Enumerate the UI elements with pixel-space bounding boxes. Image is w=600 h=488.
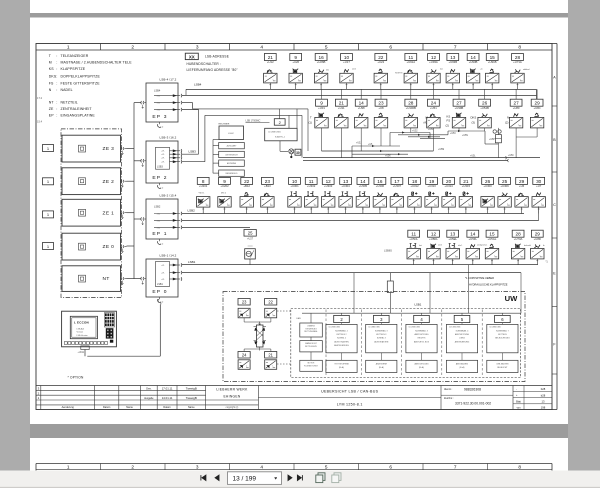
svg-text:xxxxx: xxxxx [248,245,253,247]
svg-text:21: 21 [268,353,273,358]
UW module 5 bottom box [446,360,477,372]
wire drop rowB [515,128,517,137]
wire drop 10 [294,207,296,213]
wire drop 11 [310,207,312,213]
svg-text:LSB4: LSB4 [194,83,202,87]
unit box ZE 0 [62,233,121,260]
lsb node symbol 15 [486,73,499,83]
svg-text:+U91B: +U91B [488,60,497,64]
node box 10 @x294 [289,177,301,184]
wire bus to EP3 [134,102,141,104]
next ruler divider 6 [422,464,424,470]
svg-text:2: 2 [131,45,134,51]
node box 11 @x311 [305,177,317,184]
svg-text:L: L [416,255,417,257]
wire EP3 pin2 jog [182,102,193,104]
svg-text:3: 3 [196,45,199,51]
svg-text:1: 1 [67,465,70,470]
ruler divider 5 [358,44,360,51]
wire ZE to bus [127,212,135,214]
svg-text:+U300: +U300 [483,184,492,188]
wire feed bus upper [193,108,308,110]
lsb node symbol 24 [427,117,440,128]
svg-text:L: L [475,255,476,257]
wire ZE to bus [127,148,135,150]
svg-text:L: L [344,124,345,126]
svg-text:+U93B: +U93B [448,60,457,64]
svg-text:wind: wind [352,69,356,71]
svg-text:ABSTUETZUNG: ABSTUETZUNG [414,333,429,336]
lsb node symbol 10 [340,73,353,83]
wire theta drop [249,259,251,265]
svg-text:+U5N: +U5N [462,135,468,137]
next ruler divider 4 [293,464,295,470]
node box 29 @x537 [531,99,543,106]
UW module 4 number box [414,315,430,322]
svg-text:TweeigB: TweeigB [186,396,197,400]
UW module 3 bottom box [366,360,397,372]
wire feed 24 [432,89,434,99]
UW outer dash-dot border [223,292,525,382]
svg-text:MOTOR: MOTOR [308,363,315,365]
svg-text:MASTNASE / 2.HUBENDSCHALTER TE: MASTNASE / 2.HUBENDSCHALTER TELE [61,61,133,65]
svg-text:UEBERSICHT LSB / CAN-BUS: UEBERSICHT LSB / CAN-BUS [321,389,379,393]
svg-text:4: 4 [260,45,263,51]
svg-text:C: C [553,203,556,207]
wire LSB4 bus right drop [536,89,538,99]
ruler divider 7 [487,44,489,51]
svg-text:+U303: +U303 [324,184,333,188]
svg-text:+U22: +U22 [377,60,384,64]
UW lsb symbol 24 [238,360,250,370]
svg-text:FLURMOTORST: FLURMOTORST [304,366,319,368]
svg-text:LSB-ADRESSE: LSB-ADRESSE [205,55,229,59]
wire drop 14 [362,207,364,213]
svg-text:CAN: CAN [296,317,301,320]
wire EP3-EP2 loop inner [182,161,205,163]
lsb node symbol 12 [322,197,335,208]
svg-text:NT: NT [103,276,110,282]
svg-text:LINKS: LINKS [459,338,465,340]
svg-text:LSB65: LSB65 [384,248,392,252]
svg-text:RETTUNGSPL: RETTUNGSPL [305,346,317,348]
UW node boxes 24 21 [238,352,250,359]
svg-text:C0 LSB6 LSB5: C0 LSB6 LSB5 [409,326,420,328]
node box 16 @x321 [315,54,327,61]
EP0 bottom connector [157,299,160,302]
wire drop 13 [452,83,454,90]
svg-text:+U312: +U312 [410,184,419,188]
UW module 2 detail box [326,324,357,352]
svg-text::: : [56,61,57,65]
svg-text:LSB-Adr: LSB-Adr [77,327,85,330]
ruler divider 1 [100,44,102,51]
wire EP3-EP2 loop outer [182,153,199,155]
svg-text:+U315: +U315 [462,184,471,188]
wire drop 28 [517,83,519,90]
wire drop 26 [487,207,489,213]
top ruler line [36,49,552,51]
lsb node symbol 13 [339,197,352,208]
svg-text:L: L [298,79,299,81]
svg-text:30: 30 [296,151,300,155]
svg-text:(3): (3) [472,121,475,125]
node box 15 @x492 [486,54,498,61]
svg-text:+U11: +U11 [338,106,345,110]
svg-text:17.01.11: 17.01.11 [162,387,173,391]
wire drop 12 [327,207,329,213]
wire drop 16 [320,83,322,90]
svg-text:EP: EP [49,114,54,118]
wire feed 26 [484,89,486,99]
UW module 6 number box [495,315,511,322]
svg-text:LEITERZEICH: LEITERZEICH [225,155,238,157]
node box 9 @x224 [219,177,231,184]
svg-text::: : [56,54,57,58]
svg-text:NT: NT [49,100,55,104]
lsb node symbol 26 [481,197,494,208]
svg-text:ZE 0: ZE 0 [103,244,115,250]
node box 28 @x410 [405,99,417,106]
wire feed 28 [410,89,412,99]
UW feed component [387,281,393,293]
node box 14 @x362 [357,177,369,184]
svg-text:L: L [324,124,325,126]
node box 29 @x537 [531,230,543,237]
svg-text:+U5L: +U5L [470,155,476,157]
svg-text:KLEMMKAS. 3: KLEMMKAS. 3 [375,330,388,333]
svg-text:+U8D: +U8D [534,237,541,241]
svg-text:+U6: +U6 [519,184,525,188]
svg-text:+U306: +U306 [376,184,385,188]
svg-text:DOPPELKLAPPSPITZE: DOPPELKLAPPSPITZE [61,75,101,79]
svg-text:C0 LSB6 LSB5: C0 LSB6 LSB5 [329,326,340,328]
lsb node symbol 21 [264,73,277,83]
svg-text:tb: tb [543,244,545,247]
svg-text:+U314: +U314 [444,184,453,188]
UW dashed separators [325,310,327,377]
toolbar next button [288,475,292,480]
svg-text:+U5DL: +U5DL [429,237,438,241]
svg-text:+U100B: +U100B [406,106,416,110]
svg-text:7: 7 [454,45,457,51]
svg-text:EP 1: EP 1 [152,231,167,237]
row tick [552,237,557,239]
svg-text:N: N [507,116,509,120]
svg-text:LSB2: LSB2 [154,205,161,209]
theta symbol box [245,249,256,259]
svg-text:L: L [468,204,469,206]
node box 25 [244,230,256,237]
connector at ZE 3 right [120,147,123,150]
svg-text:ZE 1: ZE 1 [103,210,115,216]
row tick [552,171,557,173]
wire drop rowB [458,128,460,131]
wire bus LSB2 line3 [182,226,251,228]
svg-text:+U26B: +U26B [317,60,326,64]
monitor sub box [81,346,89,350]
svg-text:L: L [520,79,521,81]
wire drop rowB [360,128,362,151]
svg-text:T: T [310,116,312,120]
svg-text:LSB1: LSB1 [157,283,164,286]
lsb node symbol 11 [407,248,420,259]
svg-text:LYM 1250-8.1: LYM 1250-8.1 [337,402,363,406]
ground below EP 3 [159,122,161,124]
svg-text:+U54B: +U54B [480,106,489,110]
svg-text:Aenderung: Aenderung [62,406,75,409]
lsb node symbol 29 [530,117,543,128]
svg-text:FESTE GITTERSPITZE: FESTE GITTERSPITZE [61,81,101,85]
svg-text:(1): (1) [309,121,312,125]
svg-text:(2): (2) [446,124,449,128]
stacked sub boxes [219,143,245,149]
svg-text:L: L [490,204,491,206]
svg-text:RECHNER: RECHNER [219,123,230,125]
svg-text:wind: wind [438,245,442,247]
svg-text:+U201: +U201 [199,184,208,188]
wire drop 22 [246,207,248,213]
wire drop 11 [413,259,415,265]
svg-text:L: L [249,204,250,206]
svg-text:8: 8 [518,465,521,470]
node box 27 @x516 [510,99,522,106]
UW module 5 detail box [446,324,477,352]
wire bus to EP2 [134,160,141,162]
svg-text:XX: XX [189,54,195,59]
toolbar page-copy icon 2 [334,473,341,481]
svg-text:+U309: +U309 [500,184,509,188]
node box 12 @x433 [428,230,440,237]
svg-text:windgeschw.: windgeschw. [477,245,488,247]
svg-text:*1 KOPFSPITZE UEBER: *1 KOPFSPITZE UEBER [465,276,494,280]
node box 20 @x448 [443,177,455,184]
main page [30,18,568,425]
svg-text:UW: UW [505,294,518,303]
svg-text:L: L [273,79,274,81]
module EP 0 [146,259,178,297]
connector at ZE 0 right [120,245,123,248]
svg-text:24: 24 [242,353,247,358]
wire bus LSB2 line2 [182,219,539,221]
lsb node symbol 25 [498,197,511,208]
UW module 3 number box [374,315,390,322]
wire EP0 to monitor [159,304,161,356]
svg-text::: : [56,107,57,111]
svg-text:L: L [348,204,349,206]
unit box NT [62,266,121,292]
svg-text:1: 1 [67,45,70,51]
svg-text:Blatt: Blatt [516,400,521,403]
svg-text:L: L [436,255,437,257]
lsb node symbol 28 [511,248,524,259]
svg-text:L: L [365,204,366,206]
wire drop 14 [472,259,474,265]
svg-text:Version: Version [77,332,84,334]
svg-text:LSB-3 /16.2: LSB-3 /16.2 [160,135,177,139]
page gap divider bottom [30,424,568,438]
svg-text:b28: b28 [541,387,546,391]
svg-text:L: L [540,255,541,257]
UW node boxes 23 22 [238,299,250,306]
row tick [552,105,557,107]
svg-text:ZE 3: ZE 3 [103,146,115,152]
UW feed verticals [353,273,355,314]
ref box 1 (ZE 0) [43,243,54,250]
svg-text:3371-922.30.00.001-002: 3371-922.30.00.001-002 [455,401,491,405]
toolbar first-page button [201,475,206,480]
svg-text:L: L [495,255,496,257]
lsb node symbol 11 [305,197,318,208]
svg-text:+U99B: +U99B [455,106,464,110]
lsb node symbol 17 [390,197,403,208]
UW module 4 detail box [406,324,437,352]
frame right letter margin line [556,44,558,410]
node box 10 @x346 [341,54,353,61]
wire feed 29 [536,89,538,99]
svg-text:L: L [521,255,522,257]
svg-text:Ges.: Ges. [146,387,152,391]
UW module 5 number box [454,315,470,322]
title block table [36,385,552,387]
interface wide box [265,128,297,141]
node box 24 @x433 [428,99,440,106]
lsb node symbol 23 [374,117,387,128]
svg-text:L: L [383,79,384,81]
ref box 1 (ZE 3) [43,145,54,152]
svg-text:+U52: +U52 [412,131,418,133]
svg-text:+U8C: +U8C [533,106,540,110]
svg-text:C0 LSB6 LSB5: C0 LSB6 LSB5 [368,326,379,328]
node box 21 @x341 [335,99,347,106]
svg-text:L: L [246,314,247,316]
svg-text:+U202: +U202 [220,184,229,188]
UW lsb symbol 21 [265,360,277,370]
ground below EP 2 [159,183,161,185]
node box 16 @x379 [374,177,386,184]
svg-text:+U93A: +U93A [429,60,438,64]
svg-text:TELEANZEIGER: TELEANZEIGER [61,54,89,58]
svg-text:4: 4 [260,465,263,470]
cylinder link wires [243,318,245,322]
svg-text:L: L [413,124,414,126]
wire drop 14 [472,83,474,90]
svg-text:+U5EL: +U5EL [448,237,457,241]
svg-text:EP 0: EP 0 [152,289,167,295]
svg-text:+U50: +U50 [508,155,514,157]
wire drop 28 [517,259,519,265]
UW module 3 detail box [366,324,397,352]
svg-text:UEB.KASTEN: UEB.KASTEN [496,363,509,366]
svg-text:tele 1: tele 1 [458,244,462,247]
connector at NT right [120,277,123,280]
wire drop rowB [432,128,434,151]
node box 26 @x487 [482,177,494,184]
svg-text:+U91A: +U91A [406,60,415,64]
svg-text:+U302: +U302 [307,184,316,188]
computer main box [219,126,244,140]
wire drop 13 [452,259,454,265]
svg-text::: : [56,114,57,118]
wire stacked connector [212,140,214,174]
row tick [552,373,557,375]
svg-text:L: L [399,204,400,206]
svg-text:(B+A): (B+A) [460,366,465,369]
svg-text:+U26: +U26 [292,60,299,64]
ref box 1 (ZE 2) [43,178,54,185]
svg-text:STEUERUNG: STEUERUNG [305,328,317,330]
wire feed 27 [515,89,517,99]
wire bus LSB2 line1 [182,213,525,215]
UW module 6 detail box [487,324,518,352]
svg-text:+U5P: +U5P [489,139,495,141]
svg-text:23: 23 [242,300,247,305]
lsb node symbol 16 [314,73,327,83]
ref box 1 (ZE 1) [43,211,54,218]
wire feed 23 [380,89,382,99]
svg-text:+U8: +U8 [378,106,384,110]
svg-text:* MG 1: * MG 1 [198,192,205,194]
svg-text:N: N [49,88,52,92]
svg-text:AUXILIARY: AUXILIARY [227,145,238,148]
lsb node symbol 9 [218,197,231,208]
lsb node symbol 8 [197,197,210,208]
wire bus LSB4 second [182,94,537,96]
node box 23 @x381 [375,99,387,106]
svg-text:ABST.ANZEIG: ABST.ANZEIG [456,363,469,366]
svg-text::: : [56,88,57,92]
svg-text:L: L [519,124,520,126]
svg-text:L: L [349,79,350,81]
svg-text:L: L [324,79,325,81]
wire bus LSB4 main [186,88,537,90]
svg-text:C0 LSB8 LSB1: C0 LSB8 LSB1 [268,131,281,133]
row tick [552,306,557,308]
svg-text:EP 2: EP 2 [152,175,167,181]
wire drop 21 [269,83,271,90]
svg-text:ABSTUETZUNG: ABSTUETZUNG [455,333,470,336]
svg-text:25: 25 [248,231,253,236]
svg-text:L: L [364,124,365,126]
svg-text:LSB 170066C: LSB 170066C [246,119,261,122]
svg-text:LSB3: LSB3 [189,149,197,153]
connector at ZE 1 right [120,211,123,214]
ruler divider 3 [229,44,231,51]
node box 30 @x538 [533,177,545,184]
lsb node symbol 22 [240,197,253,208]
lsb node symbol 27 [509,117,522,128]
svg-text:L: L [434,204,435,206]
wire ZE to bus [127,278,135,280]
svg-text:KS: KS [49,67,54,71]
svg-text:3: 3 [196,465,199,470]
svg-text:L: L [540,124,541,126]
svg-text:Name: Name [126,406,133,409]
svg-text:FS: FS [447,119,451,123]
svg-text:+B13: +B13 [264,184,271,188]
wire EP3 pin3 [182,109,199,111]
svg-text:ZE: ZE [49,107,54,111]
lsb node symbol 20 [442,197,455,208]
lsb node symbol 29 [515,197,528,208]
svg-text:17.2: 17.2 [37,96,43,100]
svg-text:L: L [476,79,477,81]
node box 17 @x396 [391,177,403,184]
svg-text:ABSTUETZUNG: ABSTUETZUNG [414,363,429,366]
svg-text:(B+A): (B+A) [339,366,344,369]
svg-text:LSB4: LSB4 [154,89,161,93]
UW module 4 bottom box [406,360,437,372]
